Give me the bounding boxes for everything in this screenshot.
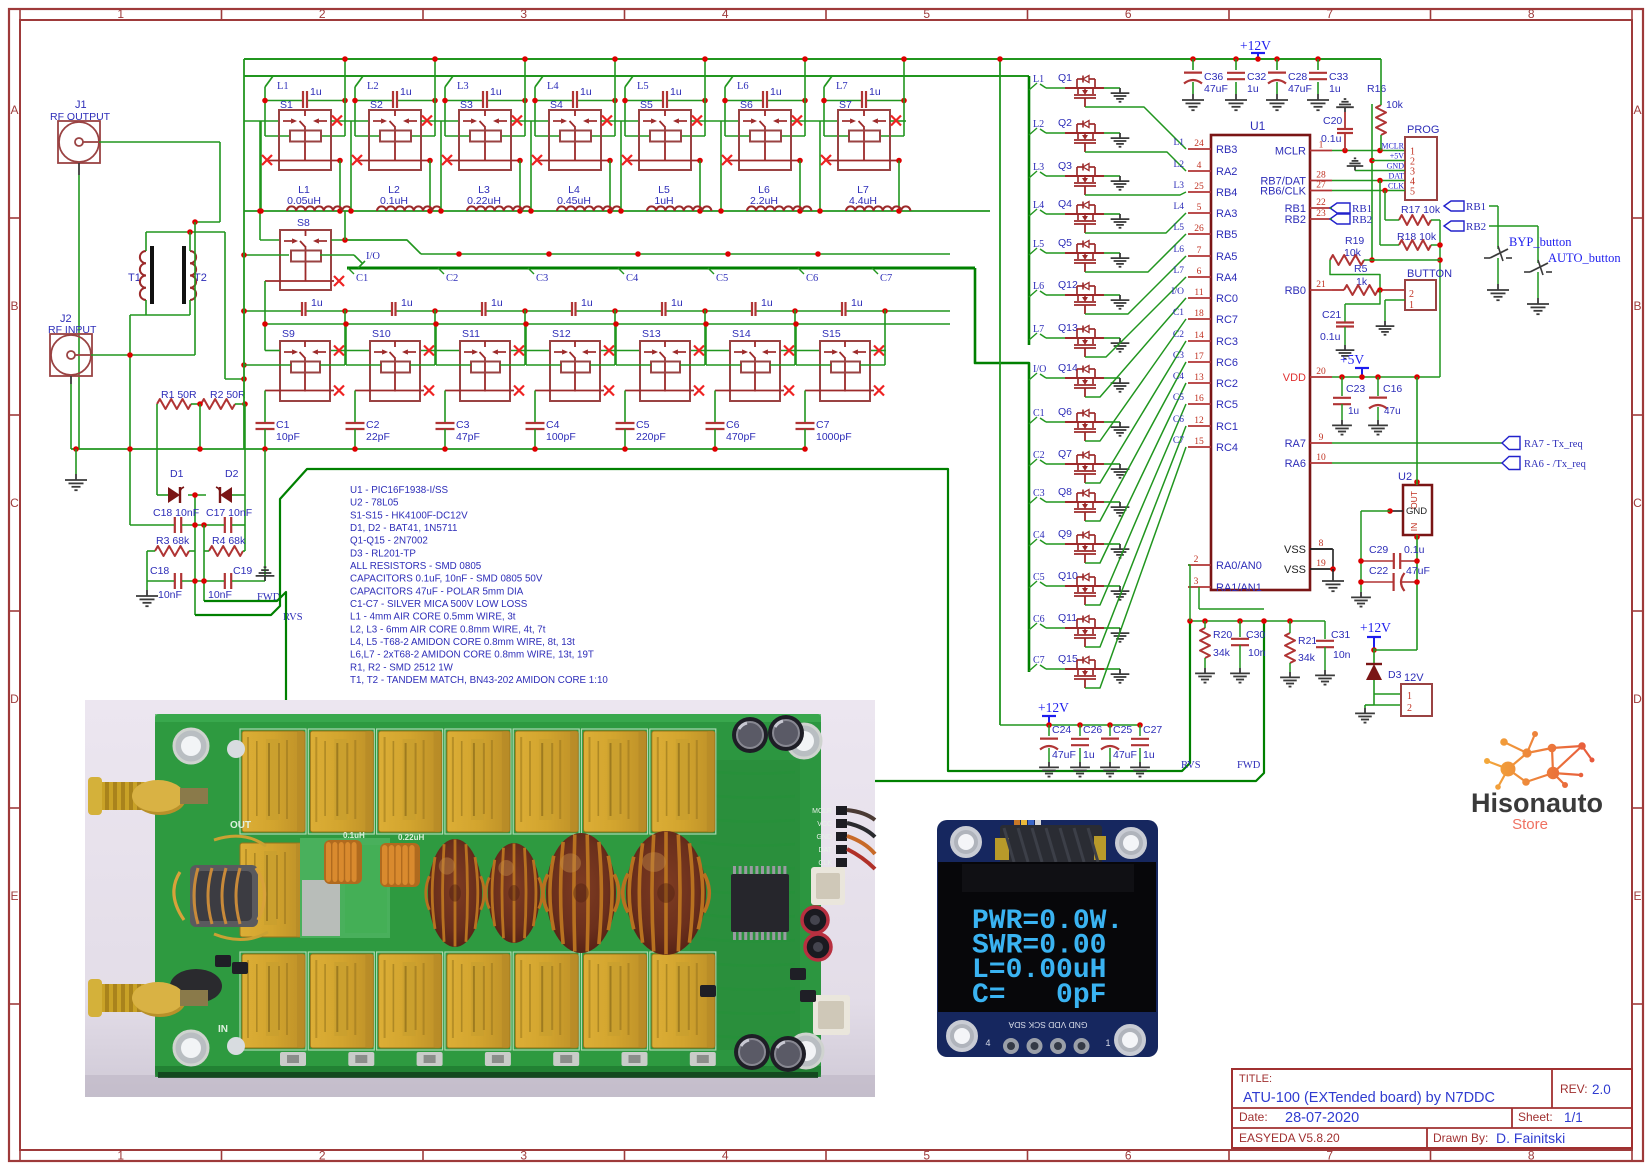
svg-text:U2: U2	[1398, 471, 1412, 483]
svg-text:Q4: Q4	[1058, 198, 1072, 210]
svg-text:Q12: Q12	[1058, 279, 1078, 291]
svg-text:S11: S11	[462, 328, 480, 340]
svg-text:BUTTON: BUTTON	[1407, 268, 1452, 280]
svg-text:E: E	[1633, 889, 1641, 903]
svg-text:1u: 1u	[671, 297, 683, 309]
svg-text:8: 8	[1319, 539, 1324, 549]
svg-text:5: 5	[1197, 203, 1202, 213]
svg-text:E: E	[10, 889, 18, 903]
svg-text:RC1: RC1	[1216, 421, 1238, 433]
svg-text:5: 5	[923, 1149, 930, 1163]
svg-text:1u: 1u	[401, 297, 413, 309]
svg-text:MCLR: MCLR	[812, 808, 832, 815]
svg-text:CAPACITORS 0.1uF, 10nF - SMD 0: CAPACITORS 0.1uF, 10nF - SMD 0805 50V	[350, 574, 543, 585]
svg-text:VDD: VDD	[1283, 372, 1306, 384]
svg-text:L6: L6	[1033, 281, 1044, 292]
svg-text:C7: C7	[880, 273, 892, 284]
svg-text:7: 7	[1197, 246, 1202, 256]
svg-text:0.1uH: 0.1uH	[380, 195, 408, 207]
svg-text:C29: C29	[1369, 544, 1388, 556]
svg-text:L7: L7	[1033, 324, 1044, 335]
svg-text:IN: IN	[1409, 523, 1419, 532]
svg-text:D1, D2 - BAT41, 1N5711: D1, D2 - BAT41, 1N5711	[350, 523, 457, 534]
svg-text:S15: S15	[822, 328, 841, 340]
svg-text:1/1: 1/1	[1564, 1110, 1583, 1125]
svg-text:C18: C18	[150, 565, 169, 577]
svg-text:L7: L7	[1173, 266, 1184, 276]
svg-text:R5: R5	[1354, 263, 1368, 275]
svg-text:C4: C4	[626, 273, 639, 284]
svg-text:L3: L3	[457, 81, 469, 92]
svg-text:47uF: 47uF	[1052, 749, 1076, 761]
svg-text:C5: C5	[1173, 393, 1184, 403]
svg-text:0.1u: 0.1u	[1321, 133, 1342, 145]
svg-text:L2, L3 - 6mm AIR CORE 0.8mm WI: L2, L3 - 6mm AIR CORE 0.8mm WIRE, 4t, 7t	[350, 624, 546, 635]
svg-text:CAPACITORS 47uF - POLAR 5mm DI: CAPACITORS 47uF - POLAR 5mm DIA	[350, 586, 524, 597]
svg-text:4: 4	[722, 7, 729, 21]
svg-text:1: 1	[1105, 1038, 1110, 1048]
svg-text:47uF: 47uF	[1204, 83, 1228, 95]
svg-text:26: 26	[1194, 224, 1204, 234]
svg-text:RVS: RVS	[1181, 760, 1201, 771]
svg-text:2: 2	[319, 7, 326, 21]
svg-text:10: 10	[1316, 453, 1326, 463]
svg-text:L7: L7	[836, 81, 848, 92]
svg-text:Q9: Q9	[1058, 528, 1072, 540]
svg-text:1uH: 1uH	[654, 195, 673, 207]
svg-text:RB2: RB2	[1285, 214, 1306, 226]
svg-text:47uF: 47uF	[1288, 83, 1312, 95]
svg-text:RB1: RB1	[1466, 201, 1486, 213]
svg-text:U2 - 78L05: U2 - 78L05	[350, 498, 399, 509]
svg-text:R19: R19	[1345, 235, 1364, 247]
svg-text:C27: C27	[1143, 724, 1162, 736]
svg-text:R21: R21	[1298, 635, 1317, 647]
svg-text:L6,L7 - 2xT68-2 AMIDON CORE 0.: L6,L7 - 2xT68-2 AMIDON CORE 0.8mm WIRE, …	[350, 650, 594, 661]
svg-text:L2: L2	[1033, 119, 1044, 130]
svg-text:22pF: 22pF	[366, 431, 390, 443]
svg-text:24: 24	[1194, 139, 1204, 149]
svg-text:L1: L1	[1173, 138, 1184, 148]
svg-text:ATU-100 (EXTended board) by N7: ATU-100 (EXTended board) by N7DDC	[1243, 1090, 1495, 1106]
svg-text:C2: C2	[1173, 330, 1184, 340]
svg-text:L1: L1	[1033, 74, 1044, 85]
svg-text:10nF: 10nF	[158, 589, 182, 601]
svg-text:GND: GND	[1406, 506, 1427, 517]
svg-text:22: 22	[1316, 198, 1326, 208]
svg-text:T2: T2	[194, 272, 207, 284]
svg-text:C23: C23	[1346, 383, 1365, 395]
svg-text:S9: S9	[282, 328, 295, 340]
svg-text:EASYEDA V5.8.20: EASYEDA V5.8.20	[1239, 1131, 1340, 1145]
svg-text:R20: R20	[1213, 629, 1232, 641]
svg-text:Q5: Q5	[1058, 237, 1072, 249]
svg-text:4: 4	[985, 1038, 990, 1048]
svg-text:10pF: 10pF	[276, 431, 300, 443]
svg-text:C7: C7	[816, 419, 830, 431]
svg-text:16: 16	[1194, 394, 1204, 404]
svg-text:20: 20	[1316, 367, 1326, 377]
svg-text:S13: S13	[642, 328, 661, 340]
svg-text:11: 11	[1194, 288, 1203, 298]
svg-text:4.4uH: 4.4uH	[849, 195, 877, 207]
svg-text:0.45uH: 0.45uH	[557, 195, 591, 207]
svg-text:4: 4	[1197, 161, 1202, 171]
svg-text:RA6: RA6	[1285, 458, 1306, 470]
svg-text:RB4: RB4	[1216, 187, 1237, 199]
svg-text:5: 5	[923, 7, 930, 21]
svg-text:23: 23	[1316, 209, 1326, 219]
svg-text:C3: C3	[1033, 488, 1045, 499]
svg-text:RC0: RC0	[1216, 293, 1238, 305]
svg-text:L3: L3	[1033, 162, 1044, 173]
svg-text:7: 7	[1326, 7, 1333, 21]
svg-text:+5V: +5V	[1390, 152, 1405, 161]
svg-text:1: 1	[1409, 300, 1414, 311]
svg-text:1: 1	[117, 7, 124, 21]
svg-text:Q1-Q15 - 2N7002: Q1-Q15 - 2N7002	[350, 536, 428, 547]
svg-text:S10: S10	[372, 328, 391, 340]
svg-text:RA6 - /Tx_req: RA6 - /Tx_req	[1524, 459, 1587, 470]
svg-text:RA2: RA2	[1216, 166, 1237, 178]
svg-text:R1, R2 - SMD 2512 1W: R1, R2 - SMD 2512 1W	[350, 662, 454, 673]
svg-text:L1 - 4mm AIR CORE 0.5mm WIRE,: L1 - 4mm AIR CORE 0.5mm WIRE, 3t	[350, 612, 516, 623]
svg-text:U1 - PIC16F1938-I/SS: U1 - PIC16F1938-I/SS	[350, 485, 448, 496]
svg-text:R3 68k: R3 68k	[156, 535, 190, 547]
svg-text:C16: C16	[1383, 383, 1402, 395]
svg-text:RA3: RA3	[1216, 208, 1237, 220]
svg-text:Date:: Date:	[1239, 1110, 1268, 1124]
svg-text:6: 6	[1197, 267, 1202, 277]
svg-text:RB5: RB5	[1216, 229, 1237, 241]
svg-text:1u: 1u	[400, 86, 412, 98]
svg-text:D: D	[10, 692, 19, 706]
svg-text:14: 14	[1194, 331, 1204, 341]
svg-text:C19: C19	[233, 565, 252, 577]
svg-text:C3: C3	[1173, 351, 1184, 361]
svg-text:28-07-2020: 28-07-2020	[1285, 1110, 1359, 1126]
svg-text:C1-C7 - SILVER MICA 500V LOW L: C1-C7 - SILVER MICA 500V LOW LOSS	[350, 599, 528, 610]
svg-text:GND: GND	[816, 834, 832, 841]
svg-text:RC2: RC2	[1216, 378, 1238, 390]
svg-text:34k: 34k	[1213, 647, 1231, 659]
svg-text:C2: C2	[1033, 450, 1045, 461]
svg-text:B: B	[10, 299, 18, 313]
svg-text:25: 25	[1194, 182, 1204, 192]
svg-text:0.1uH: 0.1uH	[343, 831, 365, 840]
svg-text:8: 8	[1528, 7, 1535, 21]
svg-text:I/O: I/O	[1171, 287, 1184, 297]
svg-text:C33: C33	[1329, 71, 1348, 83]
svg-text:1u: 1u	[761, 297, 773, 309]
svg-text:D1: D1	[170, 468, 184, 480]
svg-text:1u: 1u	[770, 86, 782, 98]
svg-text:7: 7	[1326, 1149, 1333, 1163]
svg-text:+12V: +12V	[1240, 38, 1271, 53]
svg-text:DAT: DAT	[1388, 172, 1404, 181]
svg-text:8: 8	[1528, 1149, 1535, 1163]
svg-text:+12V: +12V	[1038, 700, 1069, 715]
svg-text:2: 2	[1194, 555, 1199, 565]
svg-text:C5: C5	[636, 419, 650, 431]
svg-text:1u: 1u	[851, 297, 863, 309]
svg-text:28: 28	[1316, 171, 1326, 181]
svg-text:RB6/CLK: RB6/CLK	[1260, 186, 1307, 198]
svg-text:RC4: RC4	[1216, 442, 1238, 454]
svg-text:Q13: Q13	[1058, 322, 1078, 334]
svg-text:C20: C20	[1323, 115, 1342, 127]
svg-text:C3: C3	[536, 273, 548, 284]
svg-text:RA0/AN0: RA0/AN0	[1216, 560, 1262, 572]
svg-text:C1: C1	[356, 273, 368, 284]
svg-text:MCLR: MCLR	[1381, 142, 1404, 151]
svg-text:DAT: DAT	[819, 847, 833, 854]
svg-text:1u: 1u	[1083, 749, 1095, 761]
svg-text:L2: L2	[367, 81, 379, 92]
svg-text:1u: 1u	[1348, 406, 1359, 417]
svg-text:L6: L6	[1173, 245, 1184, 255]
svg-text:C1: C1	[1173, 308, 1184, 318]
svg-text:D: D	[1633, 692, 1642, 706]
svg-text:0.1u: 0.1u	[1404, 544, 1425, 556]
svg-text:L3: L3	[1173, 181, 1184, 191]
svg-text:GND: GND	[1387, 162, 1405, 171]
svg-text:RA7: RA7	[1285, 438, 1306, 450]
svg-text:47uF: 47uF	[1406, 565, 1430, 577]
svg-text:L6: L6	[737, 81, 749, 92]
svg-text:RB3: RB3	[1216, 144, 1237, 156]
svg-text:C= 0pF: C= 0pF	[972, 980, 1106, 1011]
svg-text:C31: C31	[1331, 629, 1350, 641]
svg-text:C22: C22	[1369, 565, 1388, 577]
svg-text:S14: S14	[732, 328, 751, 340]
svg-text:Q7: Q7	[1058, 448, 1072, 460]
svg-text:C1: C1	[1033, 408, 1045, 419]
svg-text:C36: C36	[1204, 71, 1223, 83]
svg-text:1u: 1u	[581, 297, 593, 309]
svg-text:R4 68k: R4 68k	[212, 535, 246, 547]
svg-text:C28: C28	[1288, 71, 1307, 83]
svg-text:A: A	[10, 103, 18, 117]
svg-text:Store: Store	[1512, 816, 1548, 833]
svg-text:21: 21	[1316, 280, 1326, 290]
svg-text:RA4: RA4	[1216, 272, 1237, 284]
svg-text:1000pF: 1000pF	[816, 431, 852, 443]
svg-text:L5: L5	[637, 81, 649, 92]
svg-text:GND VDD SCK SDA: GND VDD SCK SDA	[1008, 1020, 1087, 1030]
svg-text:C6: C6	[1033, 614, 1045, 625]
svg-text:C5: C5	[716, 273, 728, 284]
svg-text:L4, L5 -T68-2 AMIDON CORE 0.8m: L4, L5 -T68-2 AMIDON CORE 0.8mm WIRE, 8t…	[350, 637, 575, 648]
svg-text:1u: 1u	[670, 86, 682, 98]
svg-text:L4: L4	[1173, 202, 1184, 212]
svg-text:0.22uH: 0.22uH	[467, 195, 501, 207]
svg-text:C4: C4	[546, 419, 560, 431]
svg-text:15: 15	[1194, 437, 1204, 447]
svg-text:C2: C2	[366, 419, 380, 431]
svg-text:10nF: 10nF	[208, 589, 232, 601]
svg-text:470pF: 470pF	[726, 431, 756, 443]
svg-text:Q3: Q3	[1058, 160, 1072, 172]
svg-text:RB2: RB2	[1352, 214, 1372, 226]
svg-text:RC7: RC7	[1216, 314, 1238, 326]
svg-text:R16: R16	[1367, 83, 1386, 95]
svg-text:13: 13	[1194, 373, 1204, 383]
svg-text:2.2uH: 2.2uH	[750, 195, 778, 207]
svg-text:1u: 1u	[869, 86, 881, 98]
svg-text:1: 1	[117, 1149, 124, 1163]
svg-text:ALL RESISTORS - SMD 0805: ALL RESISTORS - SMD 0805	[350, 561, 482, 572]
svg-text:S1-S15 - HK4100F-DC12V: S1-S15 - HK4100F-DC12V	[350, 510, 468, 521]
svg-text:L4: L4	[1033, 200, 1044, 211]
svg-text:RC5: RC5	[1216, 399, 1238, 411]
svg-text:1u: 1u	[580, 86, 592, 98]
svg-text:VCC: VCC	[817, 821, 832, 828]
svg-text:1u: 1u	[490, 86, 502, 98]
svg-text:C3: C3	[456, 419, 470, 431]
svg-text:R1 50R: R1 50R	[161, 389, 197, 401]
svg-text:C5: C5	[1033, 572, 1045, 583]
svg-text:L1: L1	[277, 81, 289, 92]
svg-text:C6: C6	[726, 419, 740, 431]
svg-text:34k: 34k	[1298, 652, 1316, 664]
svg-text:3: 3	[520, 7, 527, 21]
svg-text:L5: L5	[1033, 239, 1044, 250]
svg-text:U1: U1	[1250, 119, 1266, 133]
svg-text:RA1/AN1: RA1/AN1	[1216, 582, 1262, 594]
svg-text:I/O: I/O	[1033, 364, 1046, 375]
svg-text:1u: 1u	[1247, 83, 1259, 95]
svg-text:3: 3	[520, 1149, 527, 1163]
svg-text:C24: C24	[1052, 724, 1071, 736]
svg-text:B: B	[1633, 299, 1641, 313]
svg-text:RB0: RB0	[1285, 285, 1306, 297]
svg-text:C6: C6	[1173, 415, 1184, 425]
svg-text:3: 3	[1194, 577, 1199, 587]
svg-text:27: 27	[1316, 181, 1326, 191]
svg-text:C6: C6	[806, 273, 818, 284]
svg-text:C4: C4	[1173, 372, 1184, 382]
svg-text:Q11: Q11	[1058, 612, 1077, 624]
svg-text:47u: 47u	[1384, 406, 1401, 417]
svg-text:Q6: Q6	[1058, 406, 1072, 418]
svg-text:12: 12	[1194, 416, 1204, 426]
svg-text:C21: C21	[1322, 309, 1341, 321]
svg-text:10k: 10k	[1344, 247, 1362, 259]
svg-text:9: 9	[1319, 433, 1324, 443]
svg-text:Sheet:: Sheet:	[1518, 1110, 1553, 1124]
svg-text:6: 6	[1125, 7, 1132, 21]
svg-text:10n: 10n	[1333, 649, 1351, 661]
svg-text:PROG: PROG	[1407, 124, 1439, 136]
svg-text:12V: 12V	[1404, 672, 1424, 684]
svg-text:CLK: CLK	[1388, 182, 1404, 191]
svg-text:C: C	[10, 496, 19, 510]
svg-text:18: 18	[1194, 309, 1204, 319]
svg-text:C2: C2	[446, 273, 458, 284]
svg-text:4: 4	[722, 1149, 729, 1163]
svg-text:RB2: RB2	[1466, 221, 1486, 233]
svg-text:D2: D2	[225, 468, 239, 480]
svg-text:AUTO_button: AUTO_button	[1548, 251, 1621, 265]
svg-text:Q15: Q15	[1058, 653, 1078, 665]
svg-text:100pF: 100pF	[546, 431, 576, 443]
svg-text:VSS: VSS	[1284, 564, 1306, 576]
svg-text:R17 10k: R17 10k	[1401, 204, 1441, 216]
svg-text:D3: D3	[1388, 669, 1402, 681]
svg-text:10k: 10k	[1386, 99, 1404, 111]
svg-text:Hisonauto: Hisonauto	[1471, 788, 1603, 818]
svg-text:OUT: OUT	[230, 820, 251, 831]
svg-text:Q2: Q2	[1058, 117, 1072, 129]
svg-text:6: 6	[1125, 1149, 1132, 1163]
svg-text:RA7 - Tx_req: RA7 - Tx_req	[1524, 439, 1583, 450]
svg-text:C7: C7	[1033, 655, 1045, 666]
svg-text:L5: L5	[1173, 223, 1184, 233]
svg-text:220pF: 220pF	[636, 431, 666, 443]
svg-text:1u: 1u	[311, 297, 323, 309]
svg-text:Q14: Q14	[1058, 362, 1078, 374]
svg-text:RA5: RA5	[1216, 251, 1237, 263]
svg-text:0.22uH: 0.22uH	[398, 833, 424, 842]
svg-text:Q10: Q10	[1058, 570, 1078, 582]
svg-text:D3 - RL201-TP: D3 - RL201-TP	[350, 548, 416, 559]
svg-text:Q8: Q8	[1058, 486, 1072, 498]
svg-text:L4: L4	[547, 81, 559, 92]
svg-text:C4: C4	[1033, 530, 1045, 541]
svg-text:2: 2	[1407, 703, 1412, 714]
svg-text:1u: 1u	[491, 297, 503, 309]
svg-text:5: 5	[1410, 187, 1415, 198]
svg-text:+12V: +12V	[1360, 620, 1391, 635]
svg-text:REV:: REV:	[1560, 1082, 1588, 1096]
svg-text:0.1u: 0.1u	[1320, 331, 1341, 343]
svg-text:2: 2	[319, 1149, 326, 1163]
svg-text:10n: 10n	[1248, 647, 1266, 659]
svg-text:IN: IN	[218, 1024, 228, 1035]
svg-text:17: 17	[1194, 352, 1204, 362]
svg-text:S8: S8	[297, 217, 310, 229]
svg-text:1u: 1u	[310, 86, 322, 98]
svg-text:MCLR: MCLR	[1275, 146, 1306, 158]
svg-text:1u: 1u	[1329, 83, 1341, 95]
svg-text:2.0: 2.0	[1592, 1082, 1611, 1097]
svg-text:47uF: 47uF	[1113, 749, 1137, 761]
svg-text:RC3: RC3	[1216, 336, 1238, 348]
svg-text:S12: S12	[552, 328, 571, 340]
svg-text:RC6: RC6	[1216, 357, 1238, 369]
svg-text:C: C	[1633, 496, 1642, 510]
svg-text:T1, T2 - TANDEM MATCH, BN43-20: T1, T2 - TANDEM MATCH, BN43-202 AMIDON C…	[350, 675, 608, 686]
svg-text:C25: C25	[1113, 724, 1132, 736]
svg-text:Drawn By:: Drawn By:	[1433, 1131, 1488, 1145]
svg-text:D. Fainitski: D. Fainitski	[1496, 1130, 1565, 1146]
svg-text:19: 19	[1316, 559, 1326, 569]
svg-text:1u: 1u	[1143, 749, 1155, 761]
svg-text:1: 1	[1407, 691, 1412, 702]
svg-text:L2: L2	[1173, 160, 1184, 170]
svg-text:J1: J1	[75, 99, 87, 111]
svg-text:C7: C7	[1173, 436, 1184, 446]
svg-text:C1: C1	[276, 419, 290, 431]
svg-text:TITLE:: TITLE:	[1239, 1073, 1272, 1085]
svg-text:CLK: CLK	[818, 860, 832, 867]
svg-text:BYP_button: BYP_button	[1509, 235, 1572, 249]
svg-text:A: A	[1633, 103, 1641, 117]
svg-text:C32: C32	[1247, 71, 1266, 83]
svg-text:C26: C26	[1083, 724, 1102, 736]
svg-text:0.05uH: 0.05uH	[287, 195, 321, 207]
